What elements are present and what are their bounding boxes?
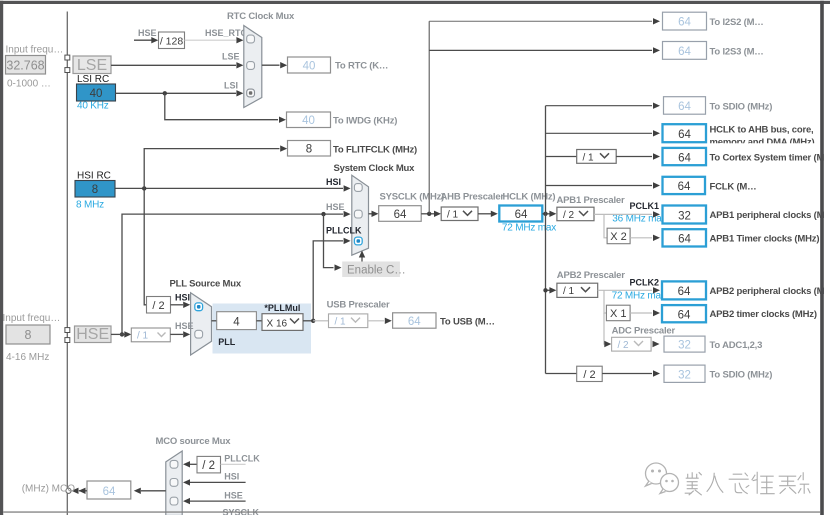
wire APB1 branch to X2 <box>604 214 607 237</box>
svg-text:SYSCLK (MHz): SYSCLK (MHz) <box>380 191 445 202</box>
svg-text:PLL: PLL <box>218 337 236 347</box>
wire prediv to PLL mux <box>170 331 190 337</box>
svg-text:/ 1: / 1 <box>583 152 595 163</box>
MCO mux radio HSI <box>170 479 178 487</box>
To I2S2 box 64 <box>663 12 707 30</box>
svg-text:To ADC1,2,3: To ADC1,2,3 <box>710 340 763 351</box>
PLL source mux shape <box>191 293 212 355</box>
wire PLL mux to multiplier input box <box>212 320 217 322</box>
svg-text:memory and DMA (MHz): memory and DMA (MHz) <box>710 137 815 148</box>
svg-text:HSI: HSI <box>326 177 341 187</box>
svg-text:APB2 Prescaler: APB2 Prescaler <box>557 270 625 281</box>
HSE pin squares <box>65 328 70 343</box>
watermark text strokes (stylized CJK) <box>684 471 810 495</box>
svg-text:LSI: LSI <box>224 81 238 91</box>
svg-text:APB1 Timer clocks (MHz): APB1 Timer clocks (MHz) <box>710 233 820 244</box>
svg-text:Enable C…: Enable C… <box>347 264 406 276</box>
Cortex prescaler dropdown /1 <box>577 150 617 164</box>
wire to SDIO top <box>546 103 661 109</box>
svg-text:FCLK (M…: FCLK (M… <box>710 182 757 193</box>
system mux radio PLLCLK (selected) <box>354 237 362 245</box>
svg-text:APB2 peripheral clocks (M: APB2 peripheral clocks (M <box>710 286 825 297</box>
svg-text:HSI: HSI <box>224 472 239 482</box>
svg-text:HCLK (MHz): HCLK (MHz) <box>503 191 556 202</box>
svg-text:APB2 timer clocks (MHz): APB2 timer clocks (MHz) <box>710 309 817 320</box>
RTC mux radio LSE <box>247 62 255 70</box>
wire LSI to RTC mux <box>116 90 244 96</box>
wire Enable CSS to mux bottom <box>359 251 365 262</box>
wire X2 to timer box <box>630 235 660 241</box>
multiplier X1 box <box>606 305 630 321</box>
svg-text:APB1 peripheral clocks (M: APB1 peripheral clocks (M <box>710 210 825 221</box>
wire HSI stub to MCO mux <box>183 479 246 485</box>
Enable CSS button <box>342 262 406 278</box>
svg-text:Input frequ…: Input frequ… <box>6 45 64 56</box>
svg-text:PLLCLK: PLLCLK <box>326 226 362 236</box>
wire HSE box to PLL prediv /1 <box>111 331 131 337</box>
svg-text:X 2: X 2 <box>610 231 627 243</box>
svg-text:40: 40 <box>90 88 103 100</box>
svg-text:(MHz) MCO: (MHz) MCO <box>22 483 76 494</box>
wire to I2S2 <box>429 18 660 24</box>
wire HSI main to system mux <box>115 185 350 191</box>
wire AHB to HCLK box <box>478 211 498 217</box>
To ADC box 32 <box>664 336 705 352</box>
svg-text:64: 64 <box>678 101 691 113</box>
HSI RC oscillator box 8 <box>75 181 115 198</box>
svg-text:To USB (M…: To USB (M… <box>440 317 495 328</box>
svg-text:HSI: HSI <box>175 293 190 303</box>
To I2S3 box 64 <box>663 42 707 60</box>
wire PLLCLK riser to system mux <box>313 238 350 321</box>
SYSCLK box 64 <box>379 206 422 222</box>
To Cortex box 64 <box>663 148 707 165</box>
svg-text:APB1 Prescaler: APB1 Prescaler <box>557 195 625 206</box>
svg-text:To IWDG (KHz): To IWDG (KHz) <box>333 116 397 127</box>
wire /2 to MCO mux (arrow left) <box>183 461 197 467</box>
svg-text:HSE_RTC: HSE_RTC <box>205 28 248 38</box>
wire PLL junction to USB prescaler <box>313 320 328 322</box>
MCO mux radio PLLCLK <box>170 460 178 468</box>
APB2 prescaler dropdown /1 <box>557 283 598 297</box>
svg-text:8 MHz: 8 MHz <box>76 200 104 211</box>
PLL prediv dropdown /1 <box>131 328 170 342</box>
svg-text:X 1: X 1 <box>610 308 627 320</box>
wire riser to SDIO /2 <box>546 373 577 375</box>
ADC prescaler dropdown /2 (inactive) <box>612 337 652 351</box>
RTC mux radio LSI (selected) <box>247 89 255 97</box>
svg-text:LSE: LSE <box>222 52 240 62</box>
svg-text:PCLK1: PCLK1 <box>630 201 660 211</box>
svg-text:ADC Prescaler: ADC Prescaler <box>612 325 676 336</box>
svg-text:Input frequ…: Input frequ… <box>3 313 61 324</box>
svg-text:To SDIO (MHz): To SDIO (MHz) <box>710 370 773 381</box>
wire system mux to SYSCLK box <box>369 211 379 217</box>
USB prescaler dropdown /1 (inactive) <box>329 314 368 328</box>
wire riser junction to APB2 prescaler <box>543 287 556 293</box>
system mux radio HSI <box>354 184 362 192</box>
wire HCLK junction <box>542 211 556 217</box>
LSE pin squares <box>65 55 70 72</box>
svg-text:MCO source Mux: MCO source Mux <box>156 436 232 447</box>
svg-text:40: 40 <box>303 60 316 72</box>
svg-text:32: 32 <box>678 210 691 222</box>
frame top border <box>0 1 830 4</box>
wire USB prescaler to box <box>368 318 392 324</box>
svg-text:64: 64 <box>678 129 691 141</box>
svg-text:/ 2: / 2 <box>202 460 215 472</box>
svg-text:4-16 MHz: 4-16 MHz <box>6 352 49 363</box>
wire to I2S3 <box>429 47 660 53</box>
APB1 prescaler dropdown /2 <box>557 207 594 221</box>
divider /2 box (SDIO) <box>577 366 603 381</box>
watermark logo bubbles <box>646 463 679 494</box>
svg-text:64: 64 <box>408 316 421 328</box>
wire PLL output junction <box>303 319 315 323</box>
HSE oscillator box <box>75 326 112 343</box>
svg-text:64: 64 <box>678 309 691 321</box>
wire MCO box to pin <box>72 488 88 494</box>
svg-text:RTC Clock Mux: RTC Clock Mux <box>227 11 295 22</box>
svg-text:HSE: HSE <box>76 326 109 343</box>
svg-text:System Clock Mux: System Clock Mux <box>334 163 416 174</box>
svg-text:4: 4 <box>233 316 240 328</box>
frame left border <box>0 1 3 515</box>
system mux radio HSE <box>354 210 362 218</box>
svg-text:X 16: X 16 <box>267 318 288 329</box>
svg-text:64: 64 <box>678 234 691 246</box>
svg-text:36 MHz max: 36 MHz max <box>612 214 666 225</box>
svg-text:/ 2: / 2 <box>583 369 595 381</box>
svg-text:LSI RC: LSI RC <box>77 74 109 85</box>
wire LSE to RTC mux <box>111 62 243 68</box>
svg-text:/ 1: / 1 <box>563 286 575 297</box>
wire /2 to PLL mux <box>171 302 191 308</box>
divider /2 box (HSI/2) <box>147 297 171 314</box>
svg-text:72 MHz max: 72 MHz max <box>502 223 556 234</box>
PLL highlight panel <box>213 304 312 354</box>
svg-text:To I2S3 (M…: To I2S3 (M… <box>710 46 764 57</box>
FCLK box 64 <box>663 177 706 194</box>
svg-text:HSI RC: HSI RC <box>77 171 111 182</box>
wire HSI branch down to /2 divider <box>144 188 146 304</box>
svg-text:/ 2: / 2 <box>152 300 164 312</box>
svg-text:/ 2: / 2 <box>618 340 630 351</box>
MCO mux radio HSE <box>170 497 178 505</box>
svg-text:To Cortex System timer (M: To Cortex System timer (M <box>710 153 825 164</box>
wire I2S riser <box>428 21 430 214</box>
To RTC output box 40 <box>288 57 331 73</box>
svg-text:40: 40 <box>302 115 315 127</box>
svg-text:AHB Prescaler: AHB Prescaler <box>441 191 505 202</box>
wire MCO mux output to box <box>134 488 166 494</box>
HCLK box 64 (active) <box>499 206 542 222</box>
PLL mux radio HSE <box>195 330 203 338</box>
svg-text:SYSCLK: SYSCLK <box>223 508 260 515</box>
APB1 peripheral clocks box 32 <box>663 206 707 224</box>
MCO source mux shape <box>166 451 182 515</box>
frame right border <box>820 1 824 515</box>
wire APB2 branch to X1 <box>604 290 606 313</box>
svg-text:PLL Source Mux: PLL Source Mux <box>170 279 242 290</box>
LSE input frequency box 32.768 <box>6 56 46 75</box>
svg-text:8: 8 <box>92 184 98 196</box>
svg-text:64: 64 <box>678 17 691 29</box>
PLL mux radio HSI (selected) <box>195 303 203 311</box>
wire /2 to SDIO box <box>602 370 660 376</box>
svg-text:PCLK2: PCLK2 <box>630 277 660 287</box>
svg-text:HSE: HSE <box>224 490 243 500</box>
wire to cortex prescaler <box>546 156 577 158</box>
svg-text:/ 1: / 1 <box>447 210 459 221</box>
HSE input frequency box 8 <box>6 325 50 344</box>
svg-text:64: 64 <box>394 209 407 221</box>
wire APB2 branch to ADC prescaler <box>604 313 611 347</box>
wire box4 to PLLMul dropdown <box>256 320 262 322</box>
wire HSE stub to /128 <box>134 37 158 43</box>
svg-text:HSE: HSE <box>138 28 157 38</box>
PLLMul dropdown X16 <box>262 314 303 331</box>
svg-text:64: 64 <box>678 286 691 298</box>
wire SYSCLK to AHB prescaler with junction <box>421 211 441 217</box>
svg-text:HSE: HSE <box>326 202 345 212</box>
MCO pin circle <box>66 488 71 493</box>
svg-text:40 KHz: 40 KHz <box>77 100 109 111</box>
svg-text:To FLITFCLK (MHz): To FLITFCLK (MHz) <box>333 144 417 155</box>
svg-text:/ 1: / 1 <box>335 317 347 328</box>
svg-text:8: 8 <box>25 328 32 342</box>
APB1 timer clocks box 64 <box>663 229 707 246</box>
To USB box 64 <box>393 313 436 328</box>
svg-text:64: 64 <box>678 152 691 164</box>
svg-text:32.768: 32.768 <box>6 59 44 73</box>
To FLITFCLK output box 8 <box>288 141 331 157</box>
svg-text:64: 64 <box>515 209 528 221</box>
wire ADC prescaler to box <box>653 341 660 347</box>
svg-text:64: 64 <box>678 46 691 58</box>
svg-text:LSE: LSE <box>77 57 107 74</box>
wire HSE riser to system mux <box>120 211 351 337</box>
RTC clock mux shape <box>244 26 262 108</box>
svg-text:32: 32 <box>678 340 691 352</box>
svg-text:*PLLMul: *PLLMul <box>264 303 300 313</box>
wire to FCLK <box>546 182 661 188</box>
wire HSE stub to MCO mux <box>183 498 246 504</box>
svg-text:To RTC (K…: To RTC (K… <box>335 61 388 72</box>
wire cortex prescaler to box <box>616 153 660 159</box>
canvas boundary vertical line <box>66 12 68 515</box>
To SDIO box 64 <box>664 97 706 115</box>
To IWDG output box 40 <box>287 112 331 128</box>
svg-text:0-1000 …: 0-1000 … <box>7 79 51 90</box>
system clock mux shape <box>352 175 369 255</box>
divider /128 box <box>159 32 185 49</box>
svg-text:/ 1: / 1 <box>137 331 149 342</box>
svg-text:72 MHz max: 72 MHz max <box>612 290 666 301</box>
wire X1 to timer box <box>630 310 660 316</box>
LSE oscillator box <box>73 56 111 74</box>
svg-text:To SDIO (MHz): To SDIO (MHz) <box>710 101 773 112</box>
wire PLLCLK stub to /2 <box>221 463 246 465</box>
svg-text:USB Prescaler: USB Prescaler <box>327 299 390 310</box>
svg-text:HCLK to AHB bus, core,: HCLK to AHB bus, core, <box>710 125 814 136</box>
PLL input value box 4 <box>217 312 257 330</box>
HCLK to AHB box 64 <box>663 124 707 142</box>
svg-text:8: 8 <box>306 144 312 156</box>
To SDIO bottom box 32 <box>664 365 705 382</box>
multiplier X2 box <box>607 228 630 244</box>
RTC mux radio HSE_RTC <box>247 35 255 43</box>
svg-text:64: 64 <box>678 181 691 193</box>
wire CSS branch to Enable box <box>324 214 342 271</box>
APB2 peripheral clocks box 64 <box>662 281 706 299</box>
AHB prescaler dropdown /1 <box>441 207 478 221</box>
APB2 timer clocks box 64 <box>662 305 706 322</box>
frame bottom line <box>3 511 820 512</box>
svg-text:HSE: HSE <box>175 321 194 331</box>
svg-text:To I2S2 (M…: To I2S2 (M… <box>710 17 764 28</box>
svg-text:32: 32 <box>678 369 691 381</box>
LSI RC oscillator box 40 <box>77 84 116 101</box>
wire to HCLK AHB bus <box>546 130 661 136</box>
wire APB2 to peripheral box <box>598 287 660 293</box>
MCO output box 64 <box>87 481 131 499</box>
wire RTC mux output <box>262 62 287 68</box>
divider /2 box (MCO PLL) <box>197 456 221 473</box>
svg-text:/ 2: / 2 <box>563 210 575 221</box>
wire APB1 to peripheral box <box>594 211 660 217</box>
svg-text:64: 64 <box>103 486 116 498</box>
wire HCLK distribution riser <box>545 106 547 374</box>
svg-text:/ 128: / 128 <box>160 35 184 47</box>
wire HSI branch to FLITFCLK <box>144 145 287 188</box>
svg-text:PLLCLK: PLLCLK <box>224 454 260 464</box>
wire /128 to RTC mux (inactive) <box>185 37 244 43</box>
wire LSI branch to IWDG <box>165 93 286 123</box>
